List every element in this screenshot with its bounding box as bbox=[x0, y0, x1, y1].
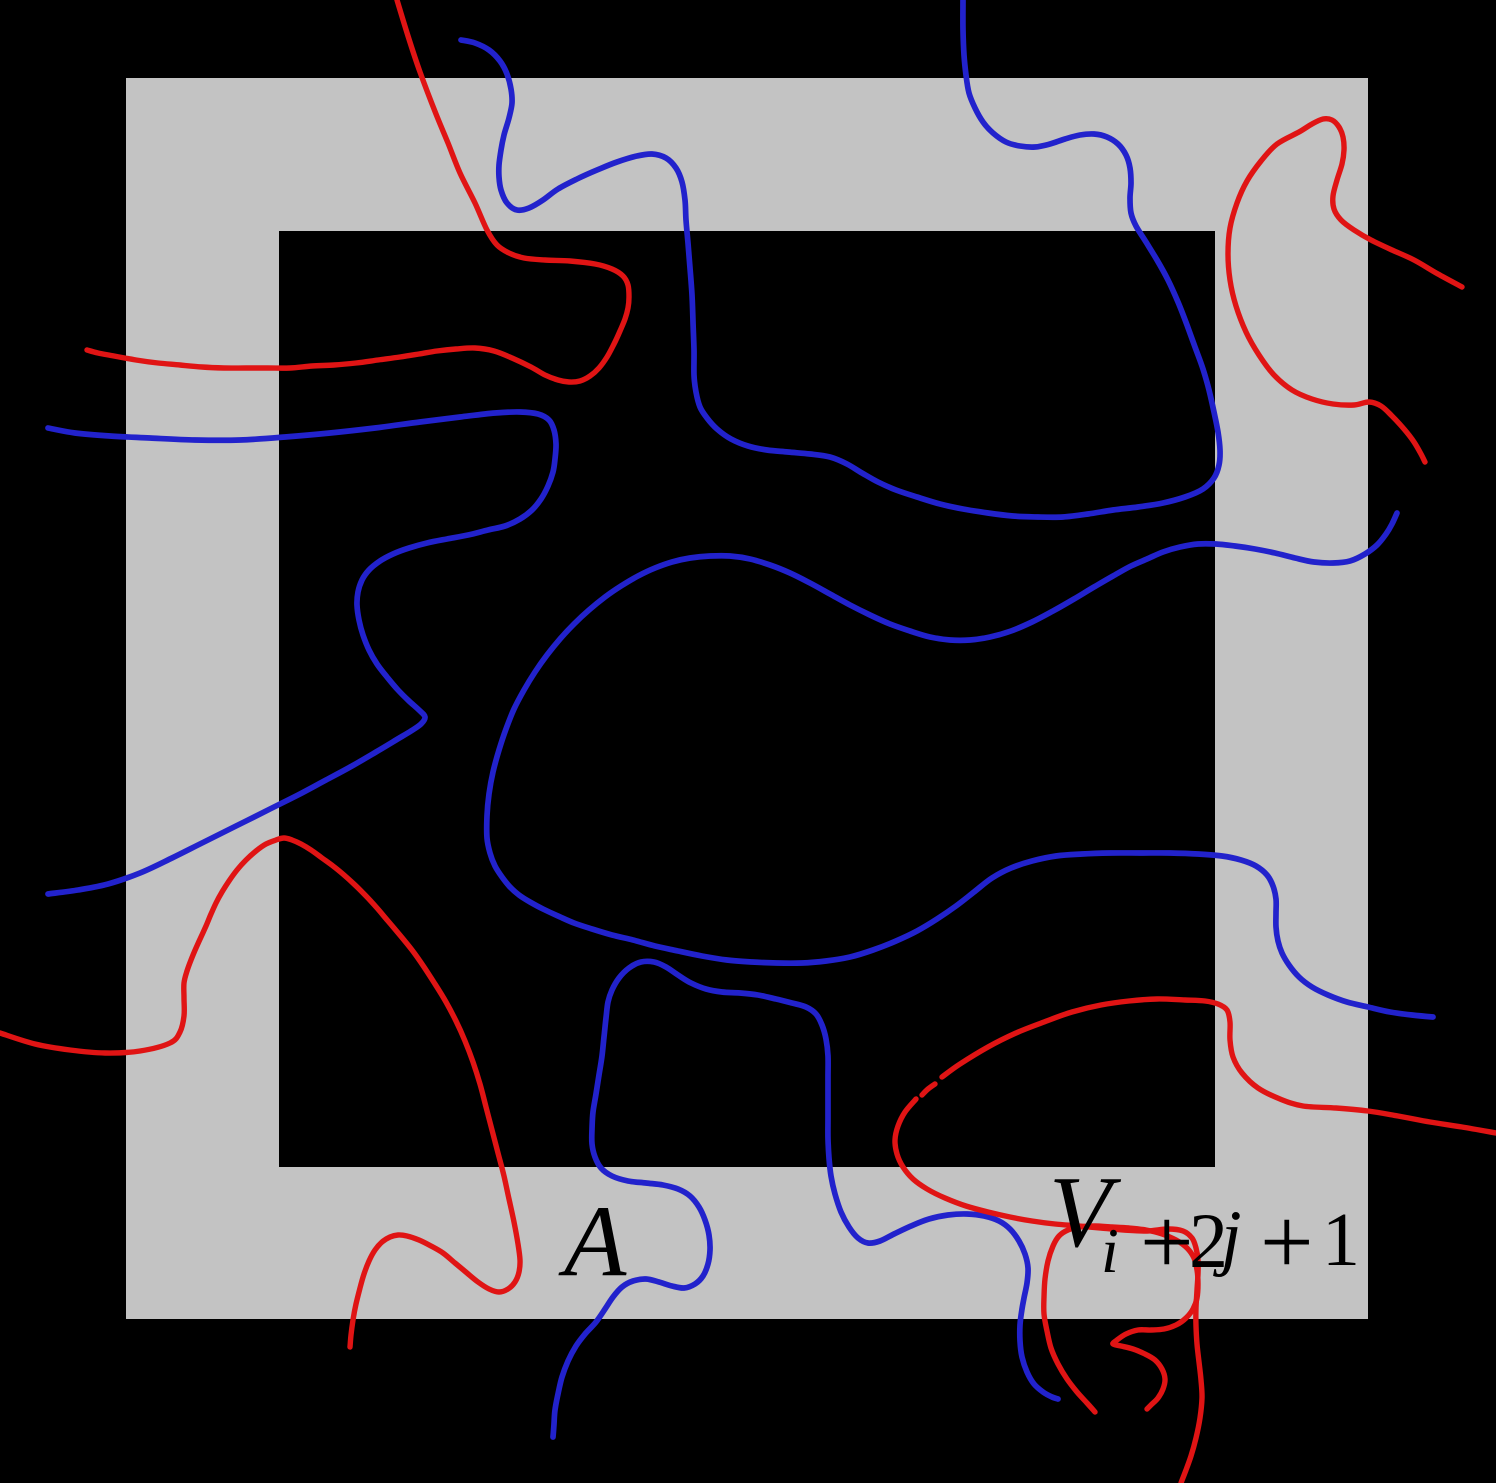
red curve: top-left (descent from top edge, right sweep, hook, wavy horizontal to left) bbox=[87, 0, 629, 382]
label A bbox=[564, 1191, 626, 1293]
red curve: left mountain (from left edge, wiggle up, peak, long SE descent, bottom squiggle) bbox=[0, 838, 520, 1347]
red curve: top-right crescent bbox=[1228, 119, 1462, 462]
red dash fragment in gap bbox=[922, 1084, 935, 1095]
inner black square A-hole bbox=[279, 231, 1215, 1167]
outer gray square (annulus) bbox=[126, 78, 1368, 1319]
label V bbox=[1049, 1162, 1111, 1264]
blue curve: middle meander (from right tip, across middle, C-loop down, east sweep, S through right band) bbox=[487, 513, 1433, 1017]
blue curve: left zigzag (horizontal, U-turn, zigzag vertex, SW diagonal) bbox=[48, 412, 556, 894]
red curve: bottom-right long curve part 2 (curl, sweep under V, descend to bottom edge) bbox=[895, 1099, 1202, 1483]
subscript i+2j+1 bbox=[1101, 1219, 1119, 1283]
blue curve: top loop (hook at top-left, S through top band, descent and sweep, up to top edge) bbox=[461, 0, 1220, 517]
red curve: bottom-right long curve part 1 (right edge, S through band, ellipse top arc) bbox=[942, 999, 1496, 1133]
blue curve: bottom arch (from bottom tail, S-bulge, arch over A, down through bottom band, S, tail) bbox=[553, 961, 1058, 1437]
red curve: loop around subscript with cusp and bulge bbox=[1044, 1226, 1198, 1412]
